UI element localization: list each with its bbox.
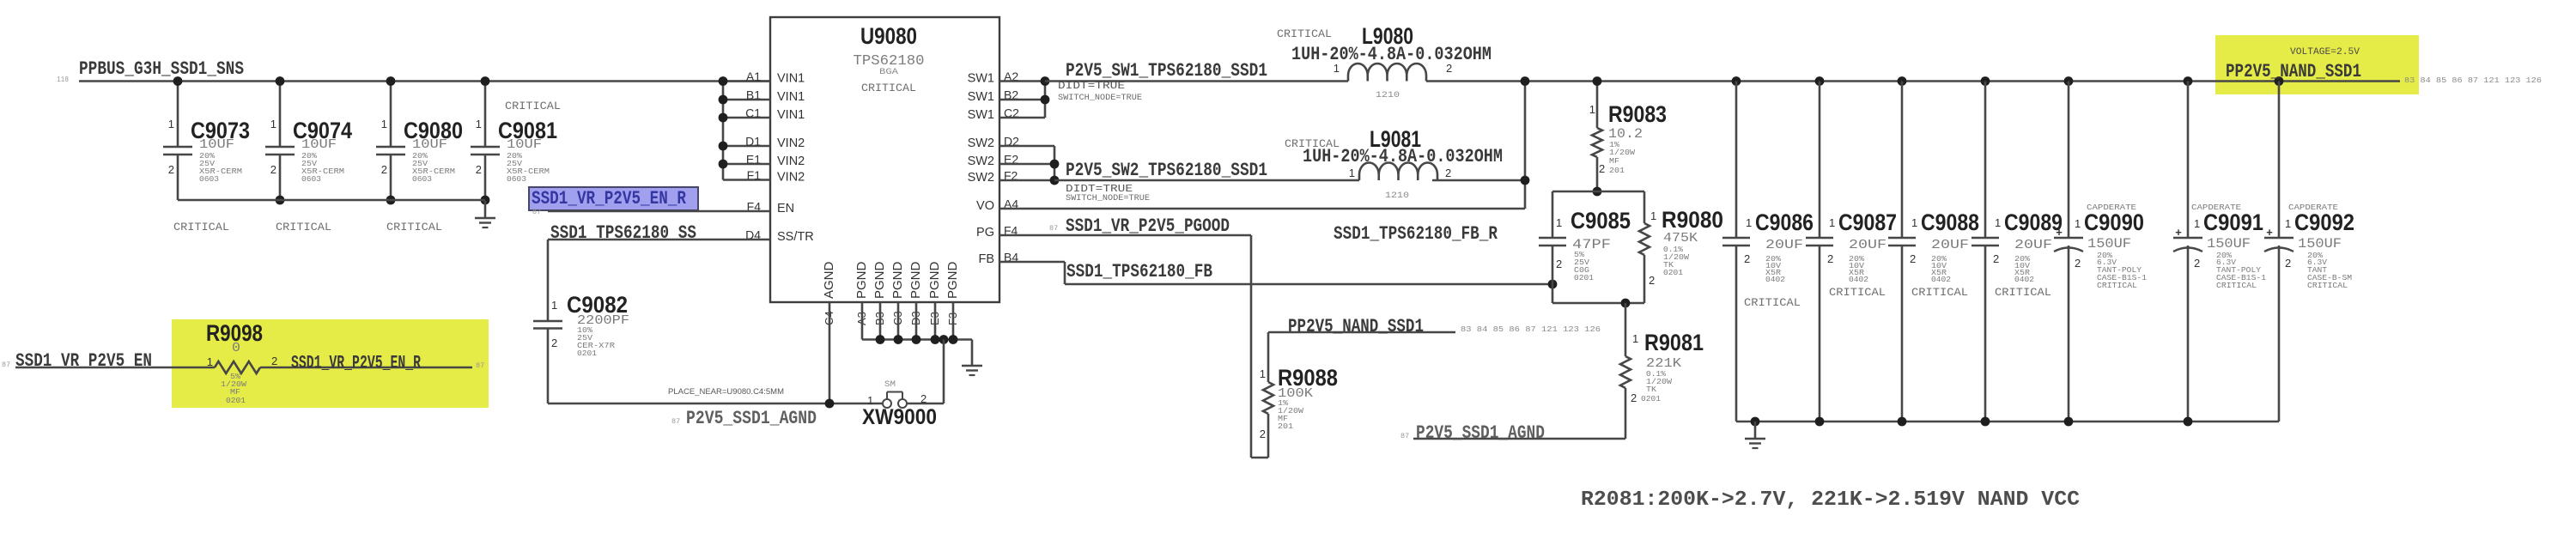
svg-text:SWITCH_NODE=TRUE: SWITCH_NODE=TRUE bbox=[1058, 94, 1142, 103]
svg-text:20UF: 20UF bbox=[1849, 238, 1886, 252]
svg-text:C9087: C9087 bbox=[1838, 209, 1897, 235]
svg-text:SW1: SW1 bbox=[968, 90, 994, 104]
svg-text:C9086: C9086 bbox=[1755, 209, 1814, 235]
svg-text:2: 2 bbox=[2075, 257, 2081, 270]
svg-text:1: 1 bbox=[551, 299, 557, 312]
svg-text:VOLTAGE=2.5V: VOLTAGE=2.5V bbox=[2290, 47, 2360, 58]
svg-text:CRITICAL: CRITICAL bbox=[1911, 286, 1968, 299]
svg-text:20UF: 20UF bbox=[1765, 238, 1803, 252]
svg-text:SW2: SW2 bbox=[968, 155, 994, 168]
svg-text:+: + bbox=[2175, 226, 2182, 239]
svg-text:XW9000: XW9000 bbox=[862, 405, 937, 429]
svg-text:2: 2 bbox=[1649, 274, 1655, 287]
svg-text:2: 2 bbox=[476, 163, 482, 176]
svg-text:0201: 0201 bbox=[1663, 268, 1683, 277]
svg-text:2: 2 bbox=[1556, 258, 1562, 270]
svg-text:87: 87 bbox=[532, 208, 541, 216]
svg-text:E1: E1 bbox=[746, 153, 761, 167]
svg-text:CRITICAL: CRITICAL bbox=[173, 221, 229, 234]
svg-text:2: 2 bbox=[551, 337, 557, 349]
svg-text:R9080: R9080 bbox=[1662, 207, 1723, 233]
svg-text:2: 2 bbox=[270, 163, 276, 176]
svg-text:2: 2 bbox=[168, 163, 174, 176]
svg-text:87: 87 bbox=[1049, 224, 1058, 233]
svg-text:B1: B1 bbox=[746, 88, 761, 102]
svg-text:SM: SM bbox=[884, 380, 896, 390]
svg-text:PG: PG bbox=[976, 226, 994, 240]
svg-text:BGA: BGA bbox=[879, 68, 898, 77]
svg-text:2: 2 bbox=[1445, 167, 1451, 179]
svg-text:1: 1 bbox=[1260, 367, 1266, 380]
svg-text:1: 1 bbox=[1349, 167, 1355, 179]
svg-text:CRITICAL: CRITICAL bbox=[1744, 296, 1801, 309]
svg-text:PGND: PGND bbox=[890, 261, 905, 299]
svg-text:PLACE_NEAR=U9080.C4:5MM: PLACE_NEAR=U9080.C4:5MM bbox=[668, 387, 784, 397]
svg-text:20UF: 20UF bbox=[2014, 238, 2052, 252]
svg-text:150UF: 150UF bbox=[2298, 236, 2342, 252]
svg-text:P2V5_SSD1_AGND: P2V5_SSD1_AGND bbox=[1416, 422, 1545, 444]
svg-text:SW1: SW1 bbox=[968, 72, 994, 86]
svg-text:C9090: C9090 bbox=[2084, 209, 2144, 235]
svg-text:FB: FB bbox=[978, 252, 994, 266]
svg-text:DIDT=TRUE: DIDT=TRUE bbox=[1066, 183, 1133, 195]
svg-text:2: 2 bbox=[2194, 257, 2200, 270]
svg-text:C9092: C9092 bbox=[2294, 209, 2354, 235]
svg-text:1: 1 bbox=[1746, 216, 1752, 229]
svg-text:1: 1 bbox=[476, 118, 482, 130]
svg-text:87: 87 bbox=[671, 417, 680, 426]
svg-text:CRITICAL: CRITICAL bbox=[2097, 281, 2137, 290]
svg-text:2: 2 bbox=[1993, 252, 1999, 265]
svg-text:118: 118 bbox=[57, 76, 69, 84]
svg-text:2: 2 bbox=[1827, 252, 1833, 265]
svg-text:D1: D1 bbox=[745, 135, 761, 149]
svg-text:F1: F1 bbox=[747, 168, 762, 182]
svg-text:1: 1 bbox=[1334, 62, 1340, 75]
svg-text:0201: 0201 bbox=[226, 396, 246, 405]
svg-text:1: 1 bbox=[1829, 216, 1835, 229]
svg-text:2: 2 bbox=[381, 163, 387, 176]
svg-text:201: 201 bbox=[1278, 422, 1293, 431]
svg-text:1: 1 bbox=[2075, 217, 2081, 230]
svg-text:2: 2 bbox=[1260, 428, 1266, 440]
svg-text:R9083: R9083 bbox=[1608, 101, 1667, 127]
svg-text:0603: 0603 bbox=[301, 174, 321, 184]
svg-text:150UF: 150UF bbox=[2207, 236, 2251, 252]
svg-text:PGND: PGND bbox=[854, 261, 869, 299]
svg-text:2: 2 bbox=[271, 355, 277, 367]
svg-text:1: 1 bbox=[2194, 217, 2200, 230]
svg-text:CRITICAL: CRITICAL bbox=[861, 82, 916, 94]
svg-text:CRITICAL: CRITICAL bbox=[2216, 281, 2257, 290]
svg-text:10UF: 10UF bbox=[301, 137, 337, 152]
svg-text:EN: EN bbox=[777, 202, 794, 215]
svg-text:C9089: C9089 bbox=[2004, 209, 2063, 235]
svg-text:VIN2: VIN2 bbox=[777, 136, 805, 150]
svg-text:1: 1 bbox=[381, 118, 387, 130]
svg-text:1: 1 bbox=[168, 118, 174, 130]
svg-text:PP2V5_NAND_SSD1: PP2V5_NAND_SSD1 bbox=[2226, 61, 2361, 82]
svg-text:87: 87 bbox=[2, 361, 10, 369]
svg-text:P2V5_SW2_TPS62180_SSD1: P2V5_SW2_TPS62180_SSD1 bbox=[1066, 160, 1267, 181]
svg-text:0402: 0402 bbox=[1765, 275, 1785, 284]
svg-text:1: 1 bbox=[1556, 216, 1562, 229]
svg-text:0603: 0603 bbox=[507, 174, 526, 184]
svg-text:2: 2 bbox=[1744, 252, 1750, 265]
svg-text:PGND: PGND bbox=[945, 261, 960, 299]
svg-text:VIN2: VIN2 bbox=[777, 171, 805, 185]
svg-text:VO: VO bbox=[976, 199, 994, 213]
svg-text:C9091: C9091 bbox=[2203, 209, 2263, 235]
svg-text:CRITICAL: CRITICAL bbox=[1829, 286, 1886, 299]
svg-text:SSD1_TPS62180_FB_R: SSD1_TPS62180_FB_R bbox=[1334, 223, 1498, 245]
svg-text:87: 87 bbox=[1400, 432, 1409, 440]
svg-text:20UF: 20UF bbox=[1931, 238, 1969, 252]
svg-text:0402: 0402 bbox=[2014, 275, 2034, 284]
svg-text:PP2V5_NAND_SSD1: PP2V5_NAND_SSD1 bbox=[1288, 316, 1424, 337]
svg-text:PGND: PGND bbox=[872, 261, 887, 299]
svg-text:SW1: SW1 bbox=[968, 108, 994, 122]
svg-text:+: + bbox=[2266, 226, 2273, 239]
svg-text:R9081: R9081 bbox=[1644, 330, 1704, 355]
svg-text:CRITICAL: CRITICAL bbox=[1995, 286, 2051, 299]
svg-text:2: 2 bbox=[1631, 391, 1637, 404]
svg-text:PPBUS_G3H_SSD1_SNS: PPBUS_G3H_SSD1_SNS bbox=[79, 58, 244, 80]
svg-text:SSD1_VR_P2V5_EN_R: SSD1_VR_P2V5_EN_R bbox=[532, 188, 687, 209]
svg-text:475K: 475K bbox=[1663, 231, 1698, 246]
svg-text:PGND: PGND bbox=[908, 261, 923, 299]
svg-text:201: 201 bbox=[1609, 166, 1625, 175]
svg-text:VIN2: VIN2 bbox=[777, 155, 805, 168]
svg-text:VIN1: VIN1 bbox=[777, 108, 805, 122]
svg-text:CRITICAL: CRITICAL bbox=[505, 100, 561, 112]
svg-text:VIN1: VIN1 bbox=[777, 90, 805, 104]
svg-text:SWITCH_NODE=TRUE: SWITCH_NODE=TRUE bbox=[1066, 194, 1150, 203]
svg-text:C1: C1 bbox=[745, 106, 761, 120]
svg-text:10UF: 10UF bbox=[412, 137, 447, 152]
svg-text:1: 1 bbox=[207, 355, 213, 368]
svg-text:1: 1 bbox=[1650, 209, 1656, 222]
svg-text:0201: 0201 bbox=[1574, 273, 1594, 282]
svg-text:SSD1_TPS62180_FB: SSD1_TPS62180_FB bbox=[1066, 261, 1212, 282]
svg-text:SSD1_VR_P2V5_EN_R: SSD1_VR_P2V5_EN_R bbox=[291, 353, 422, 374]
svg-text:P2V5_SSD1_AGND: P2V5_SSD1_AGND bbox=[686, 408, 817, 429]
svg-text:10UF: 10UF bbox=[507, 137, 542, 152]
svg-text:1210: 1210 bbox=[1385, 191, 1409, 201]
svg-text:PGND: PGND bbox=[927, 261, 942, 299]
svg-text:0603: 0603 bbox=[199, 174, 219, 184]
svg-text:1210: 1210 bbox=[1376, 91, 1400, 100]
svg-text:1: 1 bbox=[1632, 332, 1638, 345]
svg-text:2: 2 bbox=[920, 392, 927, 405]
svg-text:87: 87 bbox=[476, 361, 484, 370]
svg-text:10UF: 10UF bbox=[199, 137, 234, 152]
svg-text:83 84 85 86 87 121 123 126: 83 84 85 86 87 121 123 126 bbox=[1461, 325, 1601, 334]
svg-text:0402: 0402 bbox=[1931, 275, 1951, 284]
svg-text:SW2: SW2 bbox=[968, 171, 994, 185]
svg-text:U9080: U9080 bbox=[860, 23, 917, 49]
svg-text:CRITICAL: CRITICAL bbox=[1277, 27, 1332, 40]
svg-text:1UH-20%-4.8A-0.032OHM: 1UH-20%-4.8A-0.032OHM bbox=[1291, 44, 1492, 65]
svg-text:VIN1: VIN1 bbox=[777, 72, 805, 86]
svg-text:A1: A1 bbox=[746, 70, 761, 83]
svg-text:C9088: C9088 bbox=[1921, 209, 1979, 235]
svg-text:P2V5_SW1_TPS62180_SSD1: P2V5_SW1_TPS62180_SSD1 bbox=[1066, 60, 1267, 82]
svg-text:TK: TK bbox=[1646, 385, 1656, 394]
svg-text:1: 1 bbox=[2285, 217, 2291, 230]
svg-text:1: 1 bbox=[1589, 103, 1595, 116]
svg-text:83 84 85 86 87 121 123 126: 83 84 85 86 87 121 123 126 bbox=[2404, 76, 2542, 85]
svg-text:AGND: AGND bbox=[822, 261, 836, 299]
svg-text:0201: 0201 bbox=[577, 349, 597, 358]
svg-text:CRITICAL: CRITICAL bbox=[386, 221, 442, 234]
svg-text:SW2: SW2 bbox=[968, 136, 994, 150]
svg-text:MF: MF bbox=[1609, 156, 1619, 166]
svg-text:2: 2 bbox=[2285, 257, 2291, 270]
svg-text:+: + bbox=[2056, 226, 2063, 239]
svg-text:0: 0 bbox=[232, 341, 240, 355]
svg-text:2: 2 bbox=[1910, 252, 1916, 265]
svg-text:1: 1 bbox=[1911, 216, 1917, 229]
svg-text:SSD1_VR_P2V5_PGOOD: SSD1_VR_P2V5_PGOOD bbox=[1066, 215, 1230, 237]
svg-text:0402: 0402 bbox=[1849, 275, 1868, 284]
svg-text:0201: 0201 bbox=[1641, 394, 1661, 403]
svg-text:2: 2 bbox=[1599, 162, 1605, 175]
svg-text:SS/TR: SS/TR bbox=[777, 230, 814, 244]
svg-text:2: 2 bbox=[1446, 62, 1452, 75]
svg-text:150UF: 150UF bbox=[2087, 236, 2131, 252]
svg-text:C9085: C9085 bbox=[1571, 208, 1631, 234]
svg-text:CRITICAL: CRITICAL bbox=[2307, 281, 2348, 290]
svg-text:0603: 0603 bbox=[412, 174, 432, 184]
svg-text:1: 1 bbox=[270, 118, 276, 130]
svg-text:R2081:200K->2.7V, 221K->2.519V: R2081:200K->2.7V, 221K->2.519V NAND VCC bbox=[1581, 488, 2080, 512]
svg-text:CRITICAL: CRITICAL bbox=[276, 221, 331, 234]
svg-text:1: 1 bbox=[1995, 216, 2001, 229]
